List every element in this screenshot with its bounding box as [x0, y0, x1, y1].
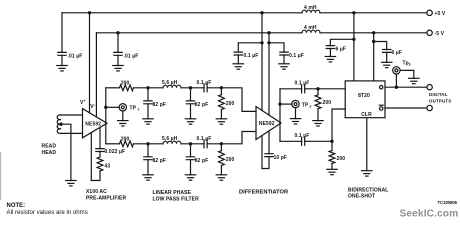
ground (TP3) [409, 78, 419, 83]
svg-text:200: 200 [121, 137, 130, 143]
svg-text:2: 2 [310, 104, 312, 108]
wire preamp gain pin left [90, 133, 92, 181]
left edge scan artifact [0, 152, 2, 200]
wire +5V rail [62, 12, 302, 14]
wire TP2 to ground [295, 108, 297, 119]
svg-text:6 µF: 6 µF [392, 50, 403, 56]
wire diff gain pin right [268, 131, 270, 154]
svg-text:DIFFERENTIATOR: DIFFERENTIATOR [239, 190, 288, 196]
capacitor 0.022 uF (gain) [99, 149, 101, 152]
svg-text:0.1 µF: 0.1 µF [197, 136, 212, 142]
terminal output Q-bar [427, 105, 432, 110]
wire V- to preamp [95, 33, 97, 117]
resistor 200 (top shunt) [219, 95, 225, 110]
svg-text:SeekIC.com: SeekIC.com [400, 209, 459, 220]
wire to TP2 [280, 103, 292, 105]
ground (diff V- bypass) [279, 64, 289, 69]
wire diff gain bottom [262, 157, 269, 169]
svg-text:200: 200 [226, 157, 235, 163]
resistor 43 (gain) [97, 157, 103, 171]
capacitor 0.1 uF (bottom output) [280, 140, 332, 142]
wire diff gain pin left [261, 136, 263, 169]
terminal -5V [427, 30, 432, 35]
capacitor 0.1 uF (top output) [280, 88, 318, 90]
svg-text:200: 200 [323, 100, 332, 106]
ground (6uF +5) [325, 57, 335, 62]
ground (read head) [66, 181, 76, 186]
resistor 200 (top series) [120, 85, 134, 91]
svg-text:TP: TP [130, 106, 137, 112]
inductor 5.6 uH (top) [163, 85, 181, 88]
wire gain network bottom [91, 171, 100, 181]
node 8T20 -5V rail junction [372, 31, 375, 34]
output pin symbol Q [380, 86, 383, 89]
inductor 5.6 uH (bottom) [163, 141, 181, 144]
wire top branch to differentiator [221, 88, 256, 112]
terminal output Q [427, 85, 432, 90]
capacitor .01 uF (V- bypass) [117, 33, 119, 66]
svg-text:PRE-AMPLIFIER: PRE-AMPLIFIER [86, 195, 126, 201]
wire to TP1 [106, 106, 119, 108]
ground (82pF top A) [143, 119, 153, 124]
wire bottom shunt stem [220, 144, 222, 175]
node V- bypass junction [116, 31, 119, 34]
ground (82pF top B) [185, 119, 195, 124]
svg-text:-5 V: -5 V [435, 31, 445, 37]
svg-text:DIGITAL: DIGITAL [429, 92, 448, 97]
svg-text:82 pF: 82 pF [153, 158, 167, 164]
svg-text:43: 43 [105, 164, 111, 170]
test point TP2 [292, 100, 299, 107]
ground (200 bottom shunt) [216, 175, 226, 180]
svg-text:5.6 µH: 5.6 µH [162, 80, 178, 86]
wire diff V- supply [268, 33, 270, 115]
node bottom branch B [189, 142, 192, 145]
test point TP1 [119, 104, 126, 111]
inductor 4 mH (+5V rail) [302, 10, 320, 13]
node bottom output RC [330, 140, 333, 143]
ground (6uF -5) [382, 62, 392, 67]
wire bottom output to 8T20 [332, 109, 345, 141]
ground (CLR) [362, 171, 372, 176]
svg-text:82 pF: 82 pF [195, 102, 209, 108]
wire TP3 ground arm [400, 70, 414, 78]
svg-text:0.1 µF: 0.1 µF [289, 53, 304, 59]
svg-text:TC100805: TC100805 [437, 200, 457, 205]
wire Q-bar output [385, 107, 427, 109]
svg-text:+5 V: +5 V [435, 11, 446, 17]
node top branch A [146, 86, 149, 89]
wire bottom branch segment 3 [181, 143, 203, 145]
wire top output shunt stem [317, 89, 319, 121]
node top output RC [316, 87, 319, 90]
wire TP1 to ground [122, 111, 124, 121]
svg-text:LINEAR PHASE: LINEAR PHASE [153, 190, 192, 196]
read head coil [57, 115, 61, 134]
wire top output to 8T20 [318, 88, 345, 90]
capacitor 10 pF (diff gain) [268, 154, 270, 157]
node top branch B [189, 86, 192, 89]
svg-text:4 mH: 4 mH [304, 5, 317, 11]
svg-text:READ: READ [42, 144, 57, 150]
wire read head top lead [61, 114, 83, 116]
ground (TP1) [118, 121, 128, 126]
svg-text:8T20: 8T20 [358, 93, 370, 99]
svg-text:ONE-SHOT: ONE-SHOT [348, 194, 375, 200]
ground (.01 uF V+) [57, 66, 67, 71]
node read head center tap [59, 123, 62, 126]
resistor 200 (bottom shunt) [219, 151, 225, 166]
op-amp NE592 differentiator [256, 107, 281, 140]
wire bottom branch segment 2 [134, 143, 164, 145]
capacitor 0.1 uF (diff V+ bypass) [238, 43, 262, 64]
IC 8T20 bidirectional one-shot [345, 81, 385, 118]
wire read head bottom lead [61, 132, 83, 134]
capacitor 82 pF (top B) [190, 88, 192, 119]
svg-text:4 mH: 4 mH [304, 25, 317, 31]
svg-text:LOW PASS FILTER: LOW PASS FILTER [153, 197, 200, 203]
svg-text:200: 200 [121, 81, 130, 87]
resistor 200 (bottom series) [120, 141, 134, 147]
wire 8T20 +5V feed [353, 13, 355, 81]
wire top shunt stem [220, 88, 222, 119]
svg-text:0.022 µF: 0.022 µF [105, 149, 126, 155]
node bottom branch C [220, 142, 223, 145]
node top branch C [220, 86, 223, 89]
test point TP3 [393, 67, 400, 74]
wire top branch segment 2 [134, 87, 164, 89]
node V+ rail junction [88, 11, 91, 14]
wire 8T20 -5V feed [373, 33, 375, 81]
capacitor 0.1 uF (bottom series) [203, 143, 222, 145]
svg-text:NE592: NE592 [259, 121, 275, 127]
svg-text:200: 200 [226, 101, 235, 107]
inductor 4 mH (-5V rail) [302, 30, 320, 33]
node TP3 tap [395, 86, 398, 89]
ground (200 top output) [313, 121, 323, 126]
svg-text:0.1 µF: 0.1 µF [295, 133, 310, 139]
wire CLR to ground [366, 118, 368, 171]
ground (82pF bottom B) [185, 175, 195, 180]
svg-text:V+: V+ [80, 99, 86, 106]
wire bottom output shunt stem [331, 141, 333, 169]
wire Q output [385, 86, 427, 88]
output pin symbol Q-bar [380, 107, 383, 110]
svg-text:0.1 µF: 0.1 µF [244, 53, 259, 59]
node 6uF tap (+5) [352, 38, 355, 41]
wire diff V+ supply [261, 13, 263, 111]
svg-text:X100 AC: X100 AC [86, 189, 107, 195]
capacitor 82 pF (bottom A) [147, 144, 149, 175]
node diff V+ bypass tap [260, 41, 263, 44]
capacitor 82 pF (top A) [147, 88, 149, 119]
node bottom branch A [146, 142, 149, 145]
svg-text:6 µF: 6 µF [336, 46, 347, 52]
svg-text:3: 3 [409, 63, 411, 67]
svg-text:NE592: NE592 [85, 121, 101, 127]
node TP1 tap [104, 106, 107, 109]
svg-text:82 pF: 82 pF [195, 158, 209, 164]
ground (diff V+ bypass) [233, 64, 243, 69]
resistor 200 (top output shunt) [315, 95, 321, 109]
wire preamp output vertical [105, 88, 107, 144]
ground (82pF bottom A) [143, 175, 153, 180]
svg-text:200: 200 [337, 156, 346, 162]
ground (TP2) [290, 119, 300, 124]
capacitor 6 uF (-5 bypass) [374, 42, 387, 63]
wire -5V rail right segment [320, 32, 427, 34]
svg-text:V–: V– [90, 103, 96, 110]
terminal +5V [427, 10, 432, 15]
svg-text:0.1 µF: 0.1 µF [197, 80, 212, 86]
node diff V- rail junction [267, 31, 270, 34]
wire top branch segment 1 [106, 87, 120, 89]
wire -5V rail [96, 32, 302, 34]
wire diff output vertical [279, 89, 281, 142]
node TP2 tap [278, 102, 281, 105]
svg-text:.01 µF: .01 µF [68, 53, 83, 59]
svg-text:82 pF: 82 pF [153, 102, 167, 108]
svg-text:1: 1 [137, 108, 139, 112]
svg-text:TP: TP [302, 102, 309, 108]
capacitor .01 uF (V+ bypass) [61, 13, 63, 66]
wire center tap to ground [61, 124, 71, 180]
wire gain cap to resistor [99, 152, 101, 158]
capacitor 0.1 uF (diff V- bypass) [269, 43, 284, 64]
node 6uF tap (-5) [372, 40, 375, 43]
resistor 200 (bottom output shunt) [329, 151, 335, 164]
wire bottom branch segment 1 [106, 143, 120, 145]
svg-text:0.1 µF: 0.1 µF [295, 81, 310, 87]
node diff V+ rail junction [260, 11, 263, 14]
ground (200 bottom output) [327, 169, 337, 174]
node 8T20 +5V rail junction [352, 11, 355, 14]
op-amp NE592 pre-amplifier [83, 109, 108, 138]
wire bottom branch to differentiator [221, 132, 256, 144]
svg-text:HEAD: HEAD [42, 150, 57, 156]
svg-text:OUTPUTS: OUTPUTS [429, 99, 451, 104]
wire TP3 stem [395, 74, 397, 87]
wire V+ to preamp [89, 13, 91, 113]
node diff V- bypass tap [267, 41, 270, 44]
capacitor 82 pF (bottom B) [190, 144, 192, 175]
capacitor 6 uF (+5 bypass) [330, 39, 354, 56]
capacitor 0.1 uF (top series) [203, 87, 222, 89]
svg-text:10 pF: 10 pF [274, 155, 288, 161]
wire +5V rail right segment [320, 12, 427, 14]
svg-text:.01 µF: .01 µF [124, 53, 139, 59]
svg-text:5.6 µH: 5.6 µH [162, 136, 178, 142]
svg-text:All resistor values are in ohm: All resistor values are in ohms [7, 209, 88, 216]
ground (.01 uF V-) [113, 66, 123, 71]
wire preamp gain pin right [99, 127, 101, 148]
ground (200 top shunt) [216, 119, 226, 124]
wire top branch segment 3 [181, 87, 203, 89]
